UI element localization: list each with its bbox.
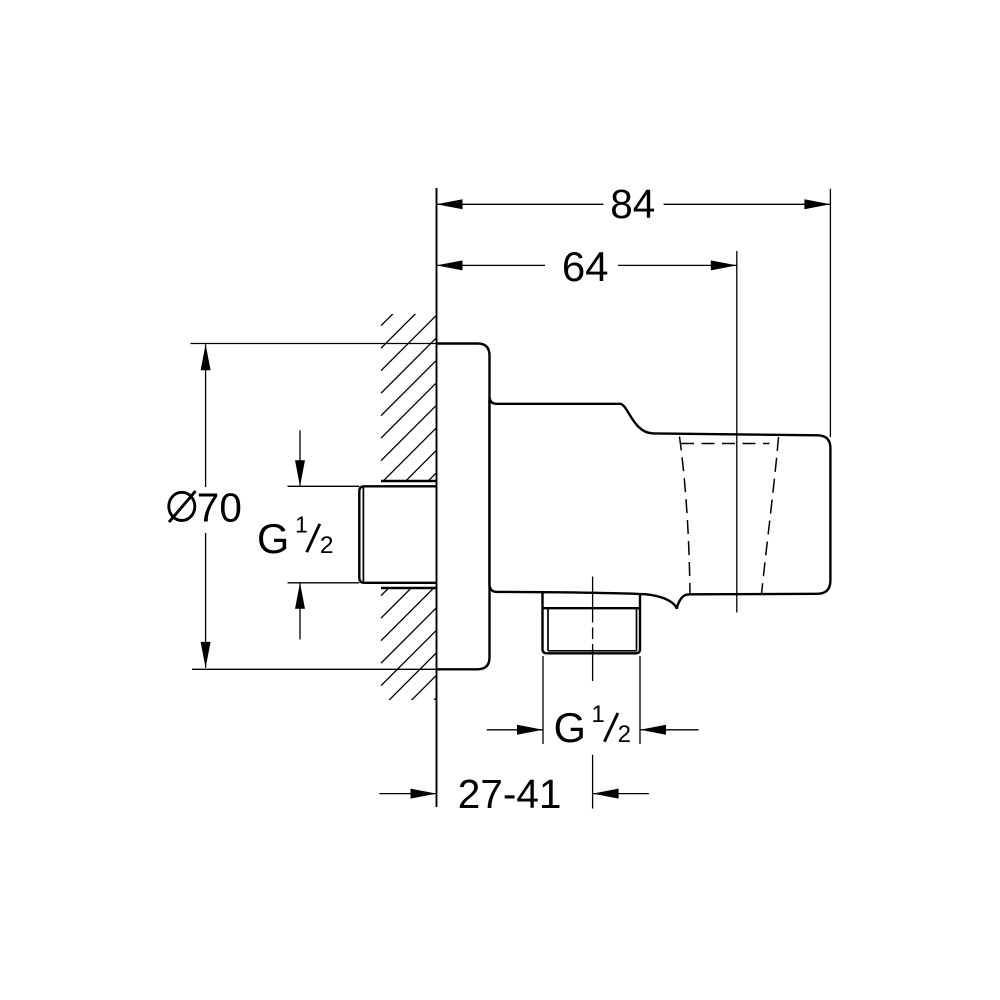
svg-text:64: 64 xyxy=(562,243,609,290)
svg-text:2: 2 xyxy=(618,721,631,748)
svg-text:2: 2 xyxy=(320,532,334,559)
svg-text:G: G xyxy=(554,704,586,751)
svg-text:1: 1 xyxy=(295,511,308,537)
svg-text:1: 1 xyxy=(591,701,604,728)
svg-text:27-41: 27-41 xyxy=(458,771,562,817)
svg-text:G: G xyxy=(257,515,289,562)
svg-text:84: 84 xyxy=(610,181,655,227)
svg-text:70: 70 xyxy=(197,485,242,531)
